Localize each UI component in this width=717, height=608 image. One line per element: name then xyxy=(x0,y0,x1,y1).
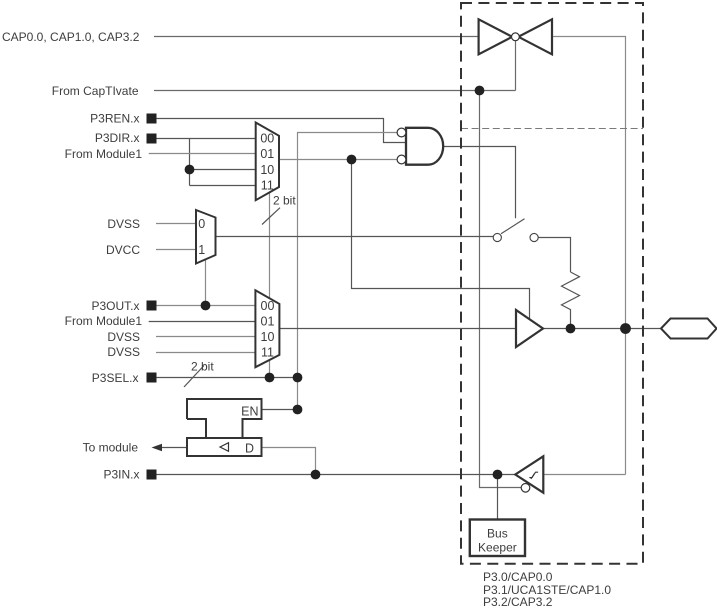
wire DVSS input (pull mux) xyxy=(156,223,196,225)
wire From CapTIvate net xyxy=(154,41,521,488)
wire AND output to REN switch xyxy=(443,147,516,219)
schmitt trigger input buffer U7 xyxy=(515,456,543,492)
inner dashed separator xyxy=(461,128,643,130)
node: EN junction xyxy=(293,405,303,415)
node: P3DIR branch junction xyxy=(185,165,195,175)
bus keeper block xyxy=(470,520,525,557)
port terminal P3DIR.x xyxy=(147,134,157,144)
label P3OUT.x xyxy=(91,299,139,313)
svg-text:11: 11 xyxy=(261,346,274,360)
svg-text:P3.2/CAP3.2: P3.2/CAP3.2 xyxy=(483,595,553,608)
svg-text:Bus: Bus xyxy=(487,527,508,541)
svg-text:10: 10 xyxy=(261,330,275,344)
mux U4 labels 00 01 10 11 xyxy=(261,299,275,359)
svg-text:10: 10 xyxy=(260,163,274,177)
mux U1 labels 00 01 10 11 xyxy=(260,132,274,193)
wire DVCC input (pull mux) xyxy=(156,249,196,251)
port terminal P3IN.x xyxy=(147,470,157,480)
latch U6 (EN / D) xyxy=(187,399,262,456)
dashed pad-cell boundary box xyxy=(461,3,643,564)
mux U3 (pullup/pulldown select) xyxy=(196,210,216,264)
svg-text:Keeper: Keeper xyxy=(478,541,517,555)
resistor R pullup xyxy=(562,272,580,329)
port terminal P3REN.x xyxy=(147,114,157,124)
AND gate U2 with inverted inputs xyxy=(397,128,443,165)
label P3REN.x xyxy=(90,111,139,125)
svg-text:From CapTIvate: From CapTIvate xyxy=(52,84,139,98)
svg-text:01: 01 xyxy=(260,147,274,161)
svg-text:P3IN.x: P3IN.x xyxy=(103,467,139,481)
label DVSS (pull mux 0) xyxy=(107,217,140,231)
node: P3OUT select junction xyxy=(201,301,211,311)
svg-text:00: 00 xyxy=(260,132,274,146)
node: bus keeper junction xyxy=(493,470,503,480)
wire pull mux output to switch xyxy=(216,236,494,238)
svg-text:1: 1 xyxy=(198,243,205,257)
wire P3SEL.x xyxy=(157,377,298,379)
svg-text:0: 0 xyxy=(198,217,205,231)
label DVCC (pull mux 1) xyxy=(106,243,140,257)
output buffer U5 xyxy=(516,310,543,347)
svg-text:01: 01 xyxy=(261,315,275,329)
node: pad junction xyxy=(620,323,631,334)
svg-text:P3REN.x: P3REN.x xyxy=(90,111,139,125)
svg-text:P3DIR.x: P3DIR.x xyxy=(95,131,140,145)
wire switch to resistor xyxy=(538,238,570,273)
mux U4 (P3OUT mux) xyxy=(255,290,279,367)
wire OUT-mux output to buffer input xyxy=(279,328,516,330)
svg-text:D: D xyxy=(245,442,254,456)
wire output-enable to buffer xyxy=(352,160,530,319)
wire bus keeper connection xyxy=(497,475,499,520)
svg-text:DVCC: DVCC xyxy=(106,243,140,257)
svg-text:00: 00 xyxy=(261,299,275,313)
label CAP0.0, CAP1.0, CAP3.2 xyxy=(2,30,140,44)
wire From Module1 (upper) xyxy=(149,153,256,155)
port terminal P3SEL.x xyxy=(147,373,157,383)
label From Module1 (lower) xyxy=(65,314,143,328)
wire P3REN.x to AND input xyxy=(157,119,407,143)
wire DIR-mux select vertical xyxy=(269,191,271,378)
svg-text:DVSS: DVSS xyxy=(107,217,140,231)
label From Module1 (upper) xyxy=(65,147,143,161)
wire DVSS input 10 xyxy=(156,336,255,338)
wire DIR-mux output to AND input xyxy=(279,159,397,161)
svg-text:2 bit: 2 bit xyxy=(273,194,296,208)
wire To module with arrow xyxy=(152,444,188,452)
transmission gate (analog switch) xyxy=(479,19,552,54)
wire pull mux select from P3OUT xyxy=(205,259,207,305)
svg-text:CAP0.0, CAP1.0, CAP3.2: CAP0.0, CAP1.0, CAP3.2 xyxy=(2,30,140,44)
wire From Module1 (lower) xyxy=(149,321,256,323)
svg-text:From Module1: From Module1 xyxy=(65,314,143,328)
wire schmitt input from pad xyxy=(544,474,626,476)
wire buffer output to pad xyxy=(543,328,661,330)
label P3IN.x xyxy=(103,467,139,481)
node: CapTIvate branch junction xyxy=(475,86,485,96)
node: P3SEL junction A xyxy=(265,373,275,383)
node: P3SEL junction B xyxy=(293,373,303,383)
node: resistor/pad junction xyxy=(566,324,576,334)
label 2 bit (lower) with slash xyxy=(184,360,214,388)
label DVSS (out mux 11) xyxy=(107,345,140,359)
node: DIR mux output junction xyxy=(347,155,357,165)
wire P3OUT.x xyxy=(157,305,256,307)
mux U3 labels 0 1 xyxy=(198,217,205,257)
label P3SEL.x xyxy=(92,371,139,385)
svg-text:From Module1: From Module1 xyxy=(65,147,143,161)
svg-text:DVSS: DVSS xyxy=(107,345,140,359)
port terminal P3OUT.x xyxy=(147,301,157,311)
node: D/P3IN junction xyxy=(311,470,321,480)
wire P3IN.x xyxy=(157,474,516,476)
svg-text:P3OUT.x: P3OUT.x xyxy=(91,299,139,313)
wire P3SEL vertical to AND top input and EN xyxy=(298,133,398,410)
label From CapTIvate xyxy=(52,84,139,98)
wire pad net vertical xyxy=(552,37,626,475)
svg-text:DVSS: DVSS xyxy=(107,330,140,344)
wire EN input of latch xyxy=(262,409,298,411)
pad hexagon xyxy=(661,319,717,339)
svg-text:2 bit: 2 bit xyxy=(191,360,214,374)
mux U1 (P3DIR mux) xyxy=(256,123,279,201)
switch blade xyxy=(501,219,525,234)
wire P3DIR.x to mux xyxy=(157,139,256,186)
label pin functions xyxy=(483,570,611,608)
wire D input of latch from P3IN xyxy=(262,448,316,475)
svg-text:P3SEL.x: P3SEL.x xyxy=(92,371,139,385)
label To module xyxy=(83,441,139,455)
wire DVSS input 11 xyxy=(156,352,255,354)
switch S1 contacts xyxy=(493,233,538,241)
label P3DIR.x xyxy=(95,131,140,145)
wire CAP0.0/CAP1.0/CAP3.2 net xyxy=(154,36,479,38)
svg-text:To module: To module xyxy=(83,441,139,455)
svg-text:EN: EN xyxy=(241,405,258,419)
svg-text:11: 11 xyxy=(261,178,274,192)
label 2 bit (upper) with slash xyxy=(262,194,296,225)
label DVSS (out mux 10) xyxy=(107,330,140,344)
